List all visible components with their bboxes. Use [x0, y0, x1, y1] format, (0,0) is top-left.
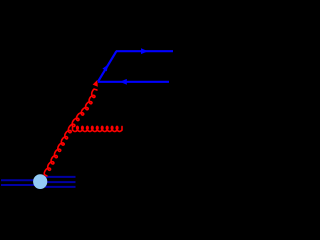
proton remnant line 3 (right of blob)	[45, 186, 76, 188]
quark arrowhead on diagonal	[102, 65, 108, 72]
interaction blob	[33, 174, 47, 189]
proton remnant line 2 (right of blob)	[45, 181, 76, 183]
incoming proton line 2 (left of blob)	[1, 184, 36, 186]
radiated gluon g2 (horizontal spring)	[73, 126, 123, 131]
proton remnant line 1 (right of blob)	[45, 176, 76, 178]
incoming proton line 1 (left of blob)	[1, 179, 36, 181]
gluon g1 (diagonal spring from blob to qqbar vertex)	[44, 89, 97, 176]
quark line (upper horizontal)	[116, 50, 173, 52]
gluon g1 arrowhead (points up-right into vertex)	[93, 80, 98, 87]
quark arrowhead (upper, points right)	[141, 48, 148, 54]
antiquark line (lower horizontal)	[98, 81, 169, 83]
antiquark arrowhead (lower, points left)	[120, 79, 127, 85]
quark line (diagonal from vertex to bend)	[98, 51, 117, 82]
